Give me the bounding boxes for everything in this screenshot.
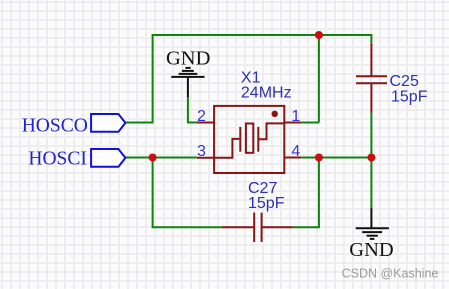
wire riser HOSCO up [152, 35, 154, 124]
wire drop to C27 right [318, 158, 320, 228]
X1 pin1 dot marker [272, 111, 278, 117]
junction pin4 net right [367, 154, 375, 162]
wire GND bottom drop [370, 157, 372, 210]
wire C25 top lead drop [370, 34, 372, 45]
wire pin1 branch vertical [318, 34, 320, 123]
wire top horizontal [152, 34, 372, 36]
capacitor C27 [222, 213, 293, 242]
wire GND top stem [187, 96, 197, 123]
svg-text:24MHz: 24MHz [241, 85, 292, 102]
svg-text:HOSCI: HOSCI [28, 149, 87, 170]
wire C25 bottom to junction [370, 113, 372, 158]
wire pin4 net horizontal [301, 157, 371, 159]
capacitor C25 [356, 44, 387, 113]
svg-text:3: 3 [197, 143, 206, 160]
wire HOSCI to pin3 [125, 157, 196, 159]
X1 pin 3 [197, 157, 214, 159]
wire bottom to C27 left [152, 226, 222, 228]
wire HOSCI drop [152, 158, 154, 228]
svg-text:15pF: 15pF [248, 195, 285, 212]
svg-text:2: 2 [197, 108, 206, 125]
ground symbol bottom-right [356, 208, 389, 239]
svg-text:GND: GND [349, 239, 393, 261]
svg-text:CSDN @Kashine: CSDN @Kashine [342, 267, 439, 281]
svg-text:4: 4 [291, 143, 300, 160]
svg-text:15pF: 15pF [391, 89, 428, 106]
wire pin1 branch horizontal [301, 122, 319, 124]
crystal X1 body [214, 106, 284, 173]
junction on HOSCI wire [149, 154, 157, 162]
junction pin4 net left [315, 154, 323, 162]
ground symbol top-left [171, 68, 204, 97]
X1 pin 2 [197, 122, 214, 124]
wire HOSCO to riser [125, 122, 152, 124]
port HOSCO [91, 114, 125, 132]
X1 pin 4 [284, 157, 301, 159]
port HOSCI [91, 149, 125, 167]
svg-text:C25: C25 [390, 73, 419, 90]
wire C27 right horizontal [293, 226, 320, 228]
svg-text:GND: GND [166, 47, 210, 69]
svg-text:1: 1 [291, 108, 300, 125]
svg-text:HOSCO: HOSCO [22, 116, 88, 137]
X1 pin 1 [284, 122, 301, 124]
junction on top wire [315, 31, 323, 39]
